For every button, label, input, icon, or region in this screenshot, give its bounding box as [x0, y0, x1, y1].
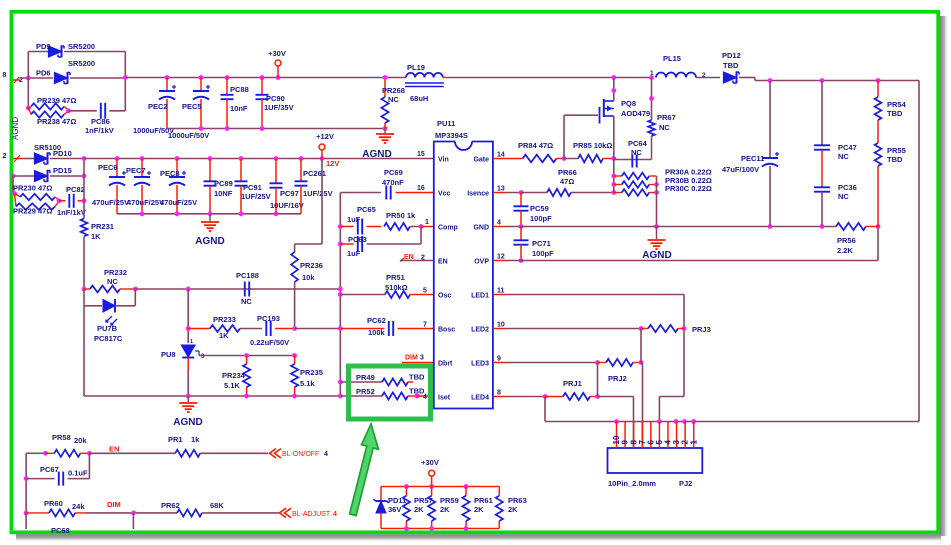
connector PJ2 pin stubs and numbers	[616, 422, 618, 449]
svg-text:EN: EN	[109, 445, 119, 454]
wire LED3-LED4 tie x=597.5	[597, 363, 599, 397]
svg-text:47Ω: 47Ω	[560, 177, 574, 186]
wire LED4 row y=396.5	[505, 396, 545, 398]
svg-text:PR30C 0.22Ω: PR30C 0.22Ω	[665, 184, 712, 193]
svg-text:PC36: PC36	[838, 183, 857, 192]
resistor PR59 2K	[431, 487, 433, 496]
resistor PR54 TBD	[877, 81, 879, 98]
svg-text:NC: NC	[107, 277, 118, 286]
svg-text:4: 4	[333, 511, 337, 518]
wire PD6 row from border to bus start	[20, 77, 53, 79]
ground AGND below section2 bus	[209, 214, 211, 221]
wire right rail x=919 down	[918, 81, 920, 422]
wire vertical x=125.3 joining PD9/PD6/PC86 to bus	[124, 52, 126, 112]
capacitor PC69 470nF on Vcc row	[340, 192, 381, 194]
svg-text:1k: 1k	[191, 435, 200, 444]
svg-text:100k: 100k	[368, 328, 386, 337]
svg-text:BL-ADJUST: BL-ADJUST	[292, 511, 331, 518]
svg-text:PR236: PR236	[300, 261, 323, 270]
svg-text:Vcc: Vcc	[438, 190, 451, 197]
svg-text:12V: 12V	[326, 159, 339, 168]
wire PU8 row y=355 to PR234/PR235	[199, 355, 295, 357]
wire PR236 down to PC193 row	[294, 282, 296, 329]
svg-text:PR54: PR54	[887, 100, 907, 109]
svg-text:470uF/25V: 470uF/25V	[92, 198, 129, 207]
svg-text:NC: NC	[838, 192, 849, 201]
connector PJ2 body	[608, 448, 703, 473]
svg-text:PR55: PR55	[887, 146, 906, 155]
resistor PR30A 0.22ohm	[614, 175, 622, 177]
wire +12V down to PR236	[321, 159, 323, 245]
svg-text:AOD479: AOD479	[621, 109, 650, 118]
svg-text:PR50 1k: PR50 1k	[386, 211, 416, 220]
svg-text:PR84 47Ω: PR84 47Ω	[518, 141, 553, 150]
svg-text:EN: EN	[438, 258, 448, 265]
svg-text:2K: 2K	[414, 505, 424, 514]
capacitor PC188 NC	[244, 282, 246, 297]
resistor PR233 1K	[188, 328, 210, 330]
svg-text:PR52: PR52	[356, 387, 375, 396]
inductor PL19 68uH	[404, 77, 406, 79]
svg-text:PC62: PC62	[367, 316, 386, 325]
wire gate drive vertical x=564	[563, 115, 565, 158]
svg-text:PR59: PR59	[440, 496, 459, 505]
svg-text:68uH: 68uH	[410, 94, 428, 103]
wire vertical x=84 diode rows to PR231	[83, 159, 85, 219]
wire GND row y=226.5	[505, 226, 836, 228]
svg-text:11: 11	[497, 288, 505, 295]
capacitor PC62 100k on Bosc row	[340, 328, 384, 330]
svg-text:Osc: Osc	[438, 292, 451, 299]
svg-text:3: 3	[201, 353, 205, 360]
ground AGND below PR268	[384, 129, 386, 134]
svg-text:1uF: 1uF	[347, 215, 361, 224]
svg-text:PR234: PR234	[222, 371, 246, 380]
resistor PR30B 0.22ohm	[614, 184, 622, 186]
wire bottom row y=396 (Iset net)	[83, 306, 85, 396]
svg-text:PR232: PR232	[104, 268, 127, 277]
resistor PR230 47ohm	[15, 194, 21, 197]
svg-text:PEC5: PEC5	[182, 102, 202, 111]
svg-text:AGND: AGND	[173, 417, 202, 428]
capacitor PC88 10nF	[226, 78, 228, 95]
wire left loop x=26.1	[25, 453, 27, 513]
wire EN pin stub	[400, 260, 434, 262]
svg-text:470uF/25V: 470uF/25V	[127, 198, 164, 207]
ground AGND bottom-left	[187, 396, 189, 402]
svg-text:15: 15	[417, 151, 425, 158]
svg-text:PR239 47Ω: PR239 47Ω	[37, 96, 76, 105]
svg-text:TBD: TBD	[887, 155, 903, 164]
resistor PR66 47ohm on Isence row	[505, 192, 521, 194]
zener diode PD11 36V	[380, 487, 382, 501]
svg-text:10NF: 10NF	[214, 189, 233, 198]
wire left edge vertical to PR230/PR229	[12, 176, 14, 193]
svg-text:1: 1	[689, 440, 698, 445]
wire DIM row	[85, 512, 177, 514]
svg-text:+30V: +30V	[268, 49, 286, 58]
wire section1 ground bus y=128.5	[167, 128, 385, 130]
svg-text:100pF: 100pF	[532, 249, 554, 258]
wire sense column x=613.8	[613, 159, 615, 193]
svg-text:10UF/16V: 10UF/16V	[270, 201, 304, 210]
wire gate row extension to PR67	[614, 159, 652, 161]
wire main Vin bus y=158.5	[84, 158, 434, 160]
svg-text:PR60: PR60	[44, 499, 63, 508]
svg-text:36V: 36V	[388, 505, 401, 514]
svg-text:10Pin_2.0mm: 10Pin_2.0mm	[608, 479, 656, 488]
svg-text:Comp: Comp	[438, 224, 458, 231]
wire bottom rail (resistor bank)	[381, 528, 499, 530]
capacitor PC68 (partially hidden)	[25, 513, 27, 529]
svg-text:PC88: PC88	[230, 85, 249, 94]
svg-text:NC: NC	[659, 123, 670, 132]
resistor PR61 2K	[465, 487, 467, 496]
wire main +30V bus y=77.5	[125, 77, 404, 79]
svg-text:PR1: PR1	[168, 435, 183, 444]
svg-text:2K: 2K	[508, 505, 518, 514]
svg-text:PR85 10kΩ: PR85 10kΩ	[573, 141, 612, 150]
capacitor PC97 10UF/16V	[275, 159, 277, 184]
svg-text:PRJ2: PRJ2	[608, 374, 627, 383]
op-amp U? none; IC PU11 MP3394S body	[455, 142, 472, 151]
resistor PR30C 0.22ohm	[614, 192, 622, 194]
svg-text:LED2: LED2	[471, 326, 489, 333]
resistor PR238 47ohm	[28, 108, 31, 114]
svg-text:PR238 47Ω: PR238 47Ω	[37, 117, 76, 126]
svg-text:PQ8: PQ8	[621, 99, 636, 108]
wire vertical node x=340.3 (Vcc/comp net)	[339, 193, 341, 397]
svg-text:MP3394S: MP3394S	[435, 131, 468, 140]
svg-text:PR61: PR61	[474, 496, 493, 505]
svg-text:1K: 1K	[91, 232, 101, 241]
svg-text:1: 1	[425, 219, 429, 226]
svg-text:PR56: PR56	[837, 236, 856, 245]
svg-text:PRJ3: PRJ3	[692, 325, 711, 334]
svg-text:5: 5	[423, 288, 427, 295]
svg-text:PR51: PR51	[386, 273, 405, 282]
svg-text:68K: 68K	[210, 501, 224, 510]
svg-text:1: 1	[190, 339, 193, 345]
svg-text:PR231: PR231	[91, 222, 114, 231]
wire x=188.2 down to PU8	[187, 289, 189, 343]
capacitor PC193 0.22uF/50V	[240, 328, 262, 330]
svg-text:PC86: PC86	[91, 117, 110, 126]
resistor PR58 20k	[26, 452, 45, 454]
svg-text:1UF/35V: 1UF/35V	[264, 103, 294, 112]
capacitor PC90 1UF/35V	[261, 78, 263, 95]
wire LED1 row y=294.5	[505, 294, 684, 296]
svg-text:PR63: PR63	[508, 496, 527, 505]
capacitor PC261 1UF/25V	[300, 159, 302, 182]
svg-text:PR230 47Ω: PR230 47Ω	[13, 184, 52, 193]
svg-text:PR268: PR268	[382, 86, 405, 95]
svg-text:AGND: AGND	[195, 236, 224, 247]
IC right pin stubs and numbers	[493, 158, 505, 160]
capacitor PC67 0.1uF	[26, 478, 54, 480]
svg-text:TBD: TBD	[409, 373, 425, 382]
capacitor PEC8 470uF/25V	[176, 159, 178, 177]
svg-text:PL19: PL19	[407, 63, 425, 72]
svg-text:PC188: PC188	[236, 271, 259, 280]
svg-text:10: 10	[497, 322, 505, 329]
svg-text:LED3: LED3	[471, 360, 489, 367]
svg-text:NC: NC	[631, 148, 642, 157]
svg-text:PR66: PR66	[558, 168, 577, 177]
svg-text:PR67: PR67	[657, 113, 676, 122]
svg-text:2K: 2K	[440, 505, 450, 514]
svg-text:PEC11: PEC11	[741, 154, 764, 163]
svg-text:Bosc: Bosc	[438, 326, 455, 333]
wire bus PL19 to PQ8/PL15	[445, 77, 652, 79]
highlight box around PR49/PR52	[349, 366, 431, 419]
svg-text:PC193: PC193	[257, 314, 280, 323]
svg-text:47uF/100V: 47uF/100V	[722, 165, 759, 174]
capacitor PC71 100pF	[520, 227, 522, 241]
svg-text:PD9: PD9	[36, 42, 51, 51]
svg-text:PEC2: PEC2	[148, 102, 168, 111]
svg-text:4: 4	[423, 394, 427, 401]
capacitor PEC11 47uF/100V electrolytic	[769, 81, 771, 158]
wire top-right bus to right rail	[754, 78, 756, 81]
wire LED3 row y=362.5	[505, 362, 598, 364]
svg-text:TBD: TBD	[723, 61, 739, 70]
svg-text:470nF: 470nF	[382, 178, 404, 187]
resistor PR229 47ohm	[15, 194, 17, 207]
svg-text:GND: GND	[473, 224, 489, 231]
svg-text:PC59: PC59	[530, 204, 549, 213]
svg-text:OVP: OVP	[474, 258, 489, 265]
wire OVP row y=260.5	[505, 260, 878, 262]
svg-text:PC47: PC47	[838, 143, 857, 152]
resistor PR236 10k	[291, 252, 298, 282]
svg-text:10nF: 10nF	[230, 104, 248, 113]
svg-text:PD6: PD6	[36, 69, 51, 78]
svg-text:16: 16	[417, 185, 425, 192]
svg-text:AGND: AGND	[642, 250, 671, 261]
svg-text:DIM: DIM	[405, 355, 418, 362]
off-page connector BL-ADJUST 4	[280, 508, 292, 517]
svg-text:BL-ON/OFF: BL-ON/OFF	[282, 451, 319, 458]
wire PR1 to off-page BL-ON/OFF	[200, 452, 268, 454]
svg-text:PC69: PC69	[384, 168, 403, 177]
svg-text:PEC6: PEC6	[98, 163, 118, 172]
svg-text:SR5200: SR5200	[68, 59, 95, 68]
wire connector bus y=420	[545, 421, 919, 423]
svg-text:PR235: PR235	[300, 368, 323, 377]
svg-text:Dbrt: Dbrt	[438, 360, 453, 367]
svg-text:20k: 20k	[74, 436, 87, 445]
svg-text:1UF/25V: 1UF/25V	[241, 192, 271, 201]
ground AGND on GND row	[656, 227, 658, 240]
svg-text:PU7B: PU7B	[97, 324, 118, 333]
diode PD9 SR5200	[28, 51, 49, 53]
svg-text:PEC8: PEC8	[160, 169, 180, 178]
svg-text:14: 14	[497, 152, 505, 159]
svg-text:PR49: PR49	[356, 373, 375, 382]
svg-text:24k: 24k	[72, 502, 85, 511]
svg-text:TBD: TBD	[887, 109, 903, 118]
resistor PR234 5.1K	[246, 356, 248, 365]
resistor PR50 1k on Comp row	[384, 223, 410, 230]
wire LED4-left drop to bus	[544, 397, 546, 422]
svg-text:+12V: +12V	[316, 132, 334, 141]
diode PD15	[11, 174, 16, 179]
svg-text:10k: 10k	[302, 273, 315, 282]
resistor PR239 47ohm	[28, 107, 31, 108]
svg-text:PD12: PD12	[722, 51, 741, 60]
capacitor PC36 NC	[814, 186, 830, 188]
svg-text:4: 4	[324, 451, 328, 458]
svg-text:4: 4	[497, 220, 501, 227]
svg-text:PC63: PC63	[348, 235, 367, 244]
svg-text:PRJ1: PRJ1	[563, 379, 582, 388]
svg-text:7: 7	[423, 322, 427, 329]
svg-text:13: 13	[497, 186, 505, 193]
svg-text:Iset: Iset	[438, 394, 451, 401]
svg-text:470uF/25V: 470uF/25V	[160, 198, 197, 207]
resistor PR63 2K	[498, 487, 500, 496]
svg-text:Isence: Isence	[467, 190, 489, 197]
svg-text:+30V: +30V	[421, 458, 439, 467]
resistor PR52 TBD on Iset row	[341, 395, 382, 397]
shunt-ref PU8	[181, 345, 195, 357]
highlight arrow pointing to box	[350, 424, 379, 516]
resistor PR1 1k	[175, 450, 200, 457]
resistor PR235 5.1k	[294, 356, 296, 365]
svg-text:PC89: PC89	[214, 179, 233, 188]
transistor PQ8 AOD479 mosfet	[599, 107, 601, 124]
svg-text:PC64: PC64	[628, 139, 648, 148]
resistor PR51 510kohm on Osc row	[340, 294, 385, 296]
capacitor PC82 1nF/1kV	[59, 200, 66, 202]
svg-text:NC: NC	[388, 95, 399, 104]
svg-text:8: 8	[497, 390, 501, 397]
svg-text:PC91: PC91	[243, 183, 262, 192]
resistor PR60 24k	[24, 511, 29, 516]
svg-text:1: 1	[650, 70, 654, 77]
svg-text:9: 9	[497, 356, 501, 363]
resistor PR231 1K	[81, 219, 88, 237]
svg-text:5.1K: 5.1K	[224, 381, 240, 390]
svg-text:PC97: PC97	[280, 189, 299, 198]
svg-text:PD10: PD10	[53, 149, 72, 158]
svg-text:PU11: PU11	[437, 119, 455, 128]
svg-text:PU8: PU8	[161, 350, 176, 359]
svg-text:3: 3	[420, 355, 424, 362]
opto-LED PU7B PC817C	[83, 289, 85, 306]
capacitor PEC7 470uF/25V	[141, 159, 143, 177]
resistor PR62 68K	[177, 509, 202, 516]
svg-text:PC65: PC65	[357, 205, 376, 214]
svg-text:2K: 2K	[474, 505, 484, 514]
svg-text:PC68: PC68	[51, 526, 70, 535]
svg-text:1nF/1kV: 1nF/1kV	[57, 208, 86, 217]
svg-text:PC82: PC82	[66, 185, 85, 194]
svg-text:2: 2	[3, 153, 7, 160]
svg-text:100pF: 100pF	[530, 214, 552, 223]
wire sense return x=656.5 to GND row	[656, 176, 658, 227]
resistor PR85 10kohm on Gate row	[578, 155, 603, 163]
svg-text:PEC7: PEC7	[126, 166, 146, 175]
capacitor PC47 NC	[821, 81, 823, 146]
svg-text:PR58: PR58	[52, 433, 71, 442]
svg-text:Gate: Gate	[473, 156, 489, 163]
svg-text:SR5200: SR5200	[68, 42, 95, 51]
svg-text:PC67: PC67	[40, 465, 59, 474]
svg-text:PD15: PD15	[53, 166, 72, 175]
wire PC193 row to x=341 vertical	[295, 328, 341, 330]
resistor PR57 2K	[405, 487, 407, 496]
off-page connector BL-ON/OFF 4	[270, 449, 282, 458]
diode PD6 SR5200	[55, 73, 68, 84]
svg-text:0.22uF/50V: 0.22uF/50V	[250, 338, 289, 347]
svg-text:1UF/25V: 1UF/25V	[303, 189, 333, 198]
resistor PRJ3	[641, 328, 648, 330]
wire LED1 drop to connector bus	[659, 396, 684, 398]
resistor PR67 NC	[651, 78, 653, 121]
wire vertical left x=28.3 down to resistor row	[27, 78, 29, 108]
svg-text:NC: NC	[241, 297, 252, 306]
svg-text:PC71: PC71	[532, 239, 551, 248]
capacitor PC89 10NF	[209, 159, 211, 182]
wire EN row to BL-ON/OFF	[89, 452, 175, 454]
resistor PR268 NC	[384, 78, 386, 98]
capacitor PC91 1UF/25V	[240, 159, 242, 182]
svg-text:1nF/1kV: 1nF/1kV	[85, 126, 114, 135]
capacitor PC86 1nF/1kV	[69, 110, 97, 112]
svg-text:PR233: PR233	[213, 315, 236, 324]
capacitor PC65 1uF on Comp row	[340, 226, 353, 228]
svg-text:0.1uF: 0.1uF	[68, 469, 88, 478]
svg-text:LED1: LED1	[471, 292, 489, 299]
svg-text:DIM: DIM	[107, 500, 121, 509]
capacitor PEC5 1000uF/50V electrolytic	[200, 78, 202, 91]
svg-text:5.1k: 5.1k	[300, 379, 315, 388]
wire PR62 to off-page BL-ADJUST	[202, 512, 279, 514]
svg-text:510kΩ: 510kΩ	[385, 283, 408, 292]
svg-text:AGND: AGND	[11, 117, 20, 140]
svg-text:8: 8	[3, 72, 7, 79]
wire LED2 row y=328.5	[505, 328, 641, 330]
capacitor PC64 NC (series in row)	[631, 155, 633, 168]
resistor PRJ2	[598, 362, 607, 364]
wire Dbrt pin stub	[402, 362, 434, 364]
svg-text:1uF: 1uF	[347, 249, 361, 258]
wire +30V rail (resistor bank)	[381, 486, 499, 488]
svg-text:PJ2: PJ2	[679, 479, 692, 488]
wire x=84 PR231 down to PR232 row	[83, 236, 85, 289]
svg-text:PR62: PR62	[161, 501, 180, 510]
svg-text:PC90: PC90	[266, 94, 285, 103]
svg-text:PC817C: PC817C	[94, 334, 123, 343]
svg-text:1000uF/50V: 1000uF/50V	[168, 131, 209, 140]
svg-text:PL15: PL15	[663, 54, 681, 63]
wire vertical left x=28.3 up to PD9 row	[27, 52, 29, 79]
resistor PR49 TBD	[340, 381, 345, 383]
svg-text:PR229 47Ω: PR229 47Ω	[13, 207, 52, 216]
wire comp loop down x=421	[420, 227, 422, 245]
wire section2 ground bus y=213.8	[117, 213, 301, 215]
capacitor PEC2 1000uF/50V electrolytic	[166, 78, 168, 91]
svg-text:Vin: Vin	[438, 156, 449, 163]
svg-text:12: 12	[497, 254, 505, 261]
resistor PR56 2.2K on GND row	[836, 223, 866, 230]
svg-text:2.2K: 2.2K	[837, 246, 853, 255]
svg-text:LED4: LED4	[471, 394, 489, 401]
resistor PR55 TBD	[877, 120, 879, 143]
resistor PR232 NC	[84, 288, 90, 290]
